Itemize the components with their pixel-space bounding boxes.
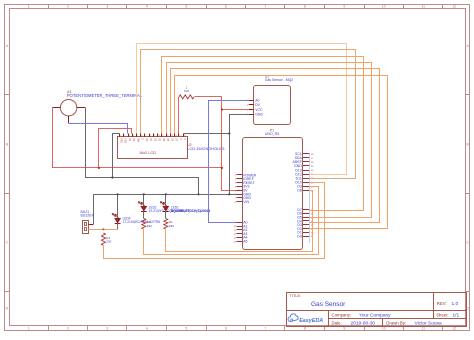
U1 pins A0 D0 VCC GND: [247, 99, 263, 117]
LCD module U2: [118, 137, 225, 159]
svg-text:Gas Sensor - MQ2: Gas Sensor - MQ2: [265, 78, 293, 82]
svg-text:2: 2: [67, 327, 69, 331]
wire GND net: LCD K pin16 to MQ2 GND vertical: [184, 133, 230, 135]
svg-text:EasyEDA: EasyEDA: [299, 318, 323, 324]
svg-text:RS: RS: [132, 138, 134, 142]
svg-text:Company:: Company:: [332, 312, 352, 317]
svg-text:7: 7: [146, 135, 147, 137]
svg-text:10: 10: [382, 327, 386, 331]
svg-text:16x2 LCD: 16x2 LCD: [139, 151, 156, 155]
svg-text:11: 11: [162, 135, 164, 137]
svg-text:12: 12: [452, 327, 456, 331]
potentiometer U3: [52, 90, 143, 123]
svg-text:5: 5: [137, 135, 138, 137]
wire red from R4 left down to LCD pin15 A: [178, 97, 180, 134]
wire bus LCD DB7 to Arduino D2: [175, 76, 388, 229]
svg-text:Drawn By:: Drawn By:: [386, 320, 406, 325]
wire 5V net: branch up to LCD VDD pin2: [99, 129, 132, 168]
svg-text:1: 1: [28, 5, 30, 9]
svg-text:3: 3: [129, 135, 130, 137]
svg-text:6: 6: [225, 5, 227, 9]
wire buzzer/LED4 net to Arduino D10: [104, 183, 325, 259]
wire GND net: pot pin3 down to gray rail, step to Arduino GND: [86, 108, 199, 195]
svg-text:D0: D0: [255, 103, 260, 107]
LED LED2 yellow: [138, 201, 190, 213]
svg-text:2: 2: [124, 135, 125, 137]
svg-text:10: 10: [382, 5, 386, 9]
wire 5V net: branch to MQ2 VCC: [222, 109, 249, 111]
svg-text:VSS: VSS: [120, 138, 122, 143]
svg-text:Gas Sensor: Gas Sensor: [311, 301, 346, 308]
svg-text:8: 8: [304, 327, 306, 331]
wire LED cathode stubs to resistors: [144, 211, 166, 218]
svg-text:TITLE:: TITLE:: [290, 293, 302, 298]
wire bus LCD DB4 to Arduino D7: [162, 57, 364, 211]
svg-text:1: 1: [120, 135, 121, 137]
svg-text:1.0: 1.0: [452, 301, 459, 307]
wire 5V net: vertical from R4 right to MQ2 VCC and Arduino 5V pin: [195, 97, 237, 191]
svg-text:BQUIRBLSTOCK(S)U0014: BQUIRBLSTOCK(S)U0014: [171, 209, 210, 213]
svg-text:10: 10: [158, 135, 160, 137]
svg-text:REV:: REV:: [437, 301, 447, 306]
wire analog A0: MQ2 A0 to Arduino A0: [209, 101, 249, 223]
svg-text:LCD-16X2NOHOLES: LCD-16X2NOHOLES: [187, 146, 225, 151]
wire LCD V0 contrast: pot wiper to LCD pin3: [69, 124, 128, 134]
svg-text:Victor Sousa: Victor Sousa: [415, 320, 442, 326]
wire GND net: LCD VSS pin1 to gray rail: [113, 134, 120, 178]
svg-text:9: 9: [343, 327, 345, 331]
svg-text:11: 11: [422, 5, 426, 9]
svg-text:7: 7: [264, 5, 266, 9]
resistor R4 100 (LCD backlight): [179, 85, 194, 99]
svg-text:3: 3: [106, 327, 108, 331]
wire GND net: buzzer pin1 up to rail: [93, 194, 95, 224]
junction dots: [98, 108, 231, 230]
svg-text:17-21SURC/S530-A2/TR8: 17-21SURC/S530-A2/TR8: [123, 220, 161, 224]
svg-text:7: 7: [264, 327, 266, 331]
svg-text:8: 8: [304, 5, 306, 9]
svg-text:6: 6: [225, 327, 227, 331]
buzzer BUZ1: [81, 210, 95, 234]
svg-text:6: 6: [141, 135, 142, 137]
svg-text:D0: D0: [297, 234, 302, 238]
wire LED2 net to Arduino D9: [144, 187, 319, 255]
wire bus LCD RS to Arduino D12: [137, 44, 347, 175]
svg-text:12: 12: [167, 135, 169, 137]
wire bus LCD E to Arduino D11: [141, 50, 356, 179]
svg-text:330: 330: [106, 240, 111, 244]
wire buzzer pin2 / LED4 cathode rail: [89, 229, 118, 231]
svg-text:GND: GND: [255, 112, 263, 116]
svg-text:4: 4: [146, 5, 148, 9]
svg-text:VIN: VIN: [243, 200, 249, 204]
svg-text:4: 4: [133, 135, 134, 137]
svg-text:2019-08-30: 2019-08-30: [351, 320, 376, 326]
svg-text:16: 16: [184, 135, 186, 137]
Arduino P1 right pins SCL..D8 and D7..D0: [292, 152, 314, 243]
wire GND net: MQ2 GND down to Arduino GND rail: [230, 115, 249, 195]
svg-text:VCC: VCC: [255, 108, 263, 112]
Arduino P1 left pins POWER..VIN and A0..A5: [234, 173, 257, 243]
wire 5V net: pot pin1 down and rail to Arduino 5V: [53, 108, 222, 168]
svg-text:9: 9: [154, 135, 155, 137]
wire bus LCD DB5 to Arduino D5: [167, 63, 372, 218]
svg-text:15: 15: [179, 135, 181, 137]
svg-text:VDD: VDD: [124, 138, 126, 143]
svg-text:1: 1: [28, 327, 30, 331]
resistor R1 330: [164, 219, 174, 230]
svg-text:330: 330: [147, 224, 152, 228]
wire LED anodes from GND rail: [118, 194, 166, 218]
svg-text:3: 3: [106, 5, 108, 9]
svg-text:UNO_R3: UNO_R3: [265, 132, 279, 136]
wire LED4 cathode down to rail: [117, 223, 119, 229]
svg-text:13: 13: [171, 135, 173, 137]
svg-text:5: 5: [185, 327, 187, 331]
wire bus LCD DB6 to Arduino D4: [171, 69, 380, 223]
title block: [286, 292, 467, 327]
svg-text:4: 4: [146, 327, 148, 331]
svg-text:2: 2: [67, 5, 69, 9]
svg-text:8: 8: [150, 135, 151, 137]
LED LED1 green: [160, 201, 210, 213]
svg-text:14: 14: [175, 135, 177, 137]
wire GND net: LED anode rail y194 from buzzer to Arduino GND pin: [94, 194, 237, 196]
resistor R3 330: [101, 233, 111, 245]
LCD U2 pins 1-16 with numbers and names: [120, 134, 186, 144]
wire LED1 net to Arduino D8: [166, 191, 313, 252]
LED LED4 red: [112, 213, 161, 224]
gas sensor U1 MQ2: [254, 75, 294, 125]
svg-text:9: 9: [343, 5, 345, 9]
svg-text:12: 12: [452, 5, 456, 9]
svg-text:Sheet:: Sheet:: [436, 313, 448, 318]
svg-text:POTENTIOMETER_THREE_TERMINAL: POTENTIOMETER_THREE_TERMINAL: [67, 93, 143, 98]
svg-text:BUZZER: BUZZER: [81, 214, 95, 218]
svg-text:A5: A5: [243, 240, 247, 244]
svg-text:1/1: 1/1: [453, 313, 460, 319]
svg-text:5: 5: [185, 5, 187, 9]
svg-text:A0: A0: [255, 99, 259, 103]
svg-text:D8: D8: [297, 189, 302, 193]
Arduino UNO P1: [243, 128, 303, 249]
resistor R2 330: [142, 219, 152, 230]
svg-text:330: 330: [169, 224, 174, 228]
svg-text:11: 11: [422, 327, 426, 331]
svg-text:Your Company: Your Company: [359, 312, 391, 318]
svg-text:100: 100: [184, 89, 189, 93]
svg-text:Date:: Date:: [332, 320, 342, 325]
